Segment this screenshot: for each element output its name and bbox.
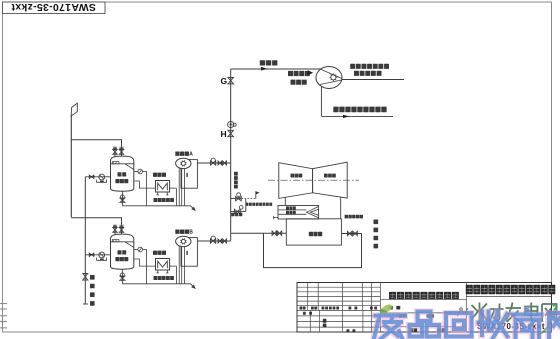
watermark pink chroma fringe bbox=[374, 310, 560, 339]
label: label 自动截断汽动气阀 bbox=[246, 203, 273, 206]
label: label 东阳光电厂真空系统 bbox=[389, 292, 459, 300]
label: label mark 314b bbox=[427, 314, 434, 318]
label: label 轴封加 row2 bbox=[286, 211, 296, 214]
label: label 签字 bbox=[349, 307, 358, 310]
label: label 设计 bbox=[303, 312, 312, 315]
label: label 离心射流 bbox=[288, 71, 310, 76]
wire: feed from pole to separator B bbox=[71, 218, 121, 225]
turbine LP cylinder right bbox=[313, 162, 348, 198]
wire: jet pump discharge bbox=[342, 79, 404, 81]
label: label 分离器 A bbox=[115, 179, 128, 183]
wire: condensate pump loop bbox=[264, 233, 362, 267]
cooler (heat exchanger) B bbox=[156, 259, 170, 271]
watermark climber icon bbox=[457, 308, 468, 316]
label: label mark 328a bbox=[410, 328, 417, 331]
svg-text:A: A bbox=[189, 152, 193, 158]
label: label 轴封加 row1 bbox=[286, 206, 296, 209]
separator vessel B bbox=[111, 234, 134, 269]
riser end tick bbox=[83, 303, 88, 305]
separator bottom drain valve A bbox=[121, 191, 123, 206]
cooler outlet to pump B bbox=[170, 265, 177, 267]
wire: drain line B bbox=[122, 284, 194, 288]
label: label 凝结水泵 (vertical) bbox=[374, 220, 379, 249]
wire: turbine right to condenser bbox=[340, 197, 342, 219]
wire: bypass vertical connector bbox=[245, 199, 247, 212]
left edge ruler ticks bbox=[0, 304, 7, 328]
label: label 冷却器 B bbox=[153, 251, 166, 255]
wire: feed from pole to separator A bbox=[71, 140, 121, 147]
label: label 真空泵 bbox=[291, 80, 307, 85]
internal dip tube B bbox=[125, 242, 134, 248]
cooler water stubs B bbox=[157, 270, 159, 273]
label: label 处数 bbox=[311, 307, 317, 310]
turbine centerline bbox=[268, 179, 359, 181]
flow orifice + drop line B bbox=[134, 249, 138, 251]
label: label 循环水为工作水进水 bbox=[333, 107, 386, 113]
label: label mark 328b bbox=[438, 328, 445, 331]
label: label mark 314a bbox=[399, 314, 406, 318]
stop valve stub bbox=[231, 206, 246, 214]
turbine LP cylinder left bbox=[279, 163, 313, 199]
separator bottom drain valve B bbox=[121, 269, 123, 284]
label: label 低压缸 left bbox=[291, 174, 303, 178]
label: label cell mark1 bbox=[323, 319, 327, 323]
label: label 截止阀 bbox=[231, 213, 242, 217]
discharge valves B bbox=[211, 239, 216, 243]
wire: condensate riser bbox=[84, 177, 86, 304]
small mark inside pump box A bbox=[186, 173, 188, 177]
watermark green leaf bbox=[379, 303, 394, 316]
vacuum pump A bbox=[181, 160, 197, 189]
internal dip tube A bbox=[125, 164, 134, 170]
wire: pump discharge to header A bbox=[197, 162, 230, 164]
svg-text:H: H bbox=[221, 129, 227, 139]
label: label 分离器 B bbox=[115, 257, 128, 261]
watermark green swoosh bbox=[537, 308, 555, 335]
label: label 开式循环水 A bbox=[154, 198, 174, 202]
wire: condenser right outlet bbox=[341, 233, 361, 235]
wire: suction pole vertical bbox=[70, 116, 72, 218]
condenser bbox=[286, 219, 341, 245]
svg-text:SWA170-35-zkxt: SWA170-35-zkxt bbox=[11, 1, 96, 13]
label: label 凝结器 bbox=[309, 232, 322, 236]
flow arrow on air pipe bbox=[261, 67, 268, 71]
label: label 汽水 A bbox=[118, 172, 127, 176]
flag symbol bbox=[71, 103, 77, 116]
inlet valves on separator B top bbox=[114, 225, 116, 235]
cooler water stubs A bbox=[157, 192, 159, 195]
label: air pipe label 空气管 bbox=[260, 60, 278, 65]
company box divider bbox=[466, 296, 551, 298]
wire: turbine left to gland heater bbox=[284, 197, 286, 205]
discharge valves A bbox=[211, 161, 216, 165]
valve G bbox=[221, 76, 234, 86]
valve on condensate riser bbox=[83, 274, 88, 281]
top-left drawing number box (rotated 180) bbox=[3, 1, 106, 13]
pump seal water drops B bbox=[175, 266, 177, 284]
control signal dashed line + flag bbox=[242, 191, 260, 198]
small mark inside pump box B bbox=[186, 251, 188, 255]
gland steam heater box bbox=[278, 206, 319, 220]
label: label 日期 bbox=[370, 307, 377, 310]
label: label 真空泵A bbox=[175, 152, 189, 156]
watermark blue text 废品回收商网 bbox=[374, 310, 560, 339]
label: label 至凝汽器 (vertical) bbox=[234, 172, 238, 189]
label: label 汽水 B bbox=[118, 250, 127, 254]
wire: outlet stub to cooler B bbox=[134, 259, 156, 266]
centrifugal jet vacuum pump U3 bbox=[316, 67, 342, 89]
label: label 武汉武泵泵业制造有限公司 bbox=[466, 285, 556, 294]
title block outer bbox=[297, 283, 552, 333]
flow orifice + drop line A bbox=[134, 171, 138, 173]
revision table rows bbox=[297, 287, 380, 327]
label: label 标记 bbox=[300, 307, 306, 310]
condensate feed pump B bbox=[85, 254, 110, 256]
wire: header-pumpB tie connector bbox=[230, 233, 232, 240]
label: label 低压缸 right bbox=[324, 174, 336, 178]
label: label 更改文件名 bbox=[322, 307, 340, 310]
feed valves pair bbox=[272, 231, 276, 235]
label: label 去循环水排水为 bbox=[350, 64, 389, 69]
revision table columns bbox=[308, 283, 467, 333]
svg-text:G: G bbox=[221, 76, 228, 86]
wire: air pipe horizontal to jet pump bbox=[231, 68, 321, 70]
middle column lines bbox=[380, 299, 466, 327]
wire: main vertical header bbox=[230, 69, 232, 233]
motorized valve on header bbox=[228, 121, 237, 127]
label: label 冷却器 A bbox=[153, 173, 166, 177]
flow arrow before jet pump inlet bbox=[308, 70, 314, 75]
label: label 日期 bottom bbox=[347, 329, 356, 332]
condensate feed pump A bbox=[85, 176, 110, 178]
cooler (heat exchanger) A bbox=[156, 181, 170, 193]
label: label mark 306 bbox=[389, 306, 401, 310]
wire: drain line A bbox=[122, 206, 194, 210]
label: label 工作水出水 bbox=[354, 71, 382, 76]
label: label 真空破坏门 bbox=[345, 215, 363, 219]
wire: working water inlet line bbox=[321, 86, 393, 118]
label: label cell mark2 bbox=[323, 324, 327, 328]
vacuum pump B bbox=[181, 238, 197, 267]
gland heater left stub bbox=[274, 217, 278, 219]
pump seal water drops A bbox=[175, 188, 177, 206]
watermark green text 水力发电网 bbox=[472, 303, 557, 324]
wire: outlet stub to cooler A bbox=[134, 181, 156, 188]
label: label 真空泵B bbox=[175, 230, 189, 234]
wire: pump discharge to header B bbox=[197, 240, 230, 242]
label: label 凝结水来 (vertical) bbox=[90, 275, 95, 306]
separator vessel A bbox=[111, 156, 134, 191]
inlet valves on separator A top bbox=[114, 147, 116, 157]
valve H bbox=[221, 129, 234, 139]
pneumatic shutoff valve stub bbox=[231, 193, 242, 201]
wire: header to condenser feed bbox=[231, 232, 287, 234]
cooler outlet to pump A bbox=[170, 187, 177, 189]
label: label 开式循环水 B bbox=[154, 276, 174, 280]
svg-text:B: B bbox=[189, 230, 193, 236]
